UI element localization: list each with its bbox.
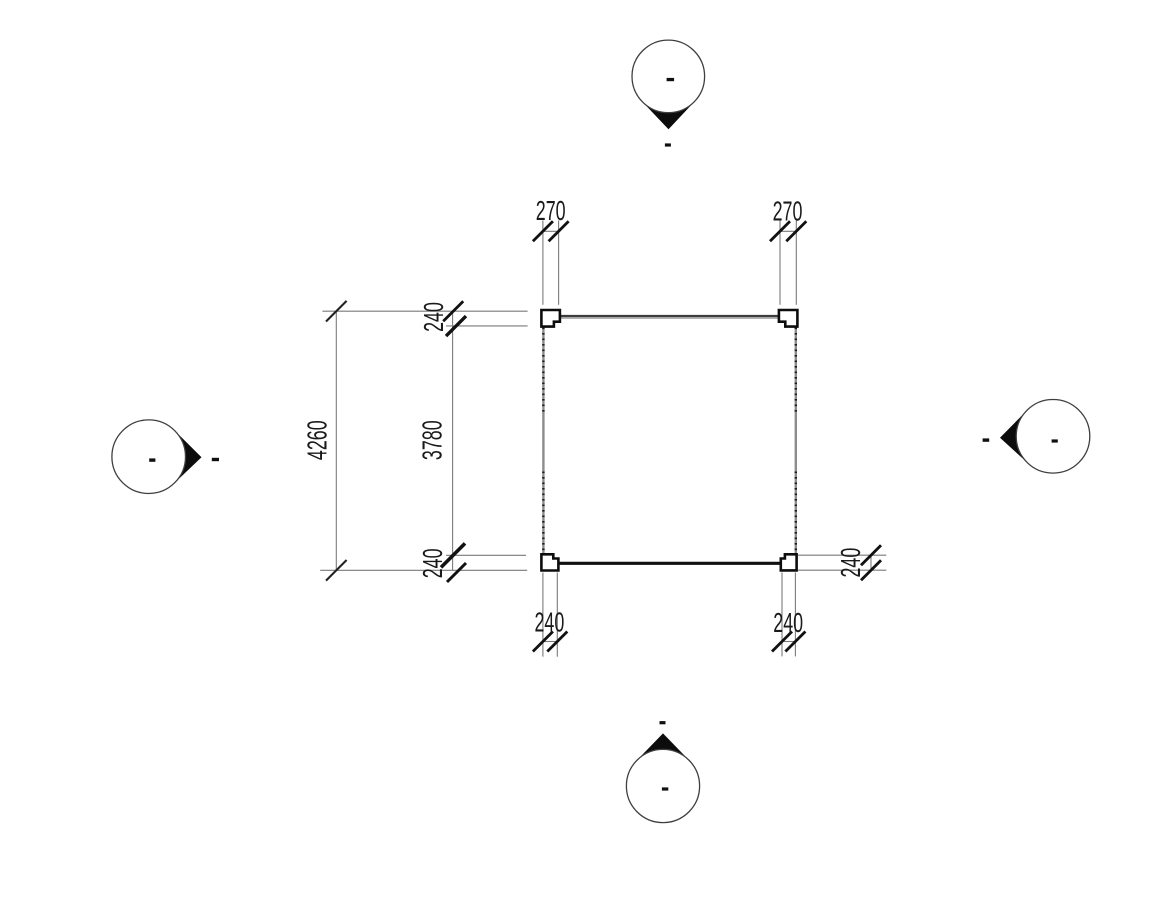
svg-text:240: 240	[417, 548, 448, 578]
svg-text:270: 270	[773, 195, 803, 226]
svg-text:3780: 3780	[417, 420, 448, 460]
svg-text:240: 240	[534, 607, 564, 638]
svg-text:240: 240	[773, 607, 803, 638]
svg-text:270: 270	[536, 195, 566, 226]
svg-text:240: 240	[835, 548, 866, 578]
svg-text:240: 240	[418, 302, 449, 332]
svg-text:4260: 4260	[302, 420, 333, 460]
